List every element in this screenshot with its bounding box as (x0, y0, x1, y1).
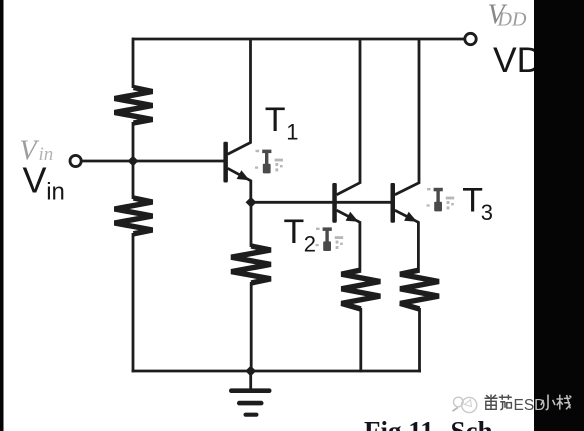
svg-text:in: in (46, 179, 65, 206)
svg-text:T: T (265, 101, 286, 139)
svg-text:in: in (39, 144, 54, 165)
svg-text:2: 2 (304, 232, 316, 257)
svg-text:T: T (284, 213, 305, 251)
svg-text:3: 3 (481, 200, 493, 225)
svg-text:V: V (20, 136, 40, 167)
svg-text:Sch: Sch (451, 416, 493, 431)
svg-text:DD: DD (497, 9, 527, 31)
svg-text:1: 1 (286, 120, 298, 145)
svg-text:Fig.11: Fig.11 (364, 416, 434, 431)
